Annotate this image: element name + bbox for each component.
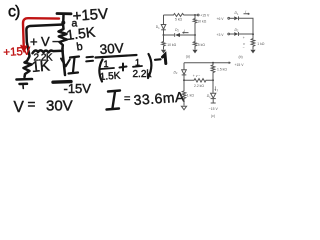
(b) diode D1 [234,16,238,20]
svg-text:I: I [217,89,218,93]
(b) output node [252,33,254,35]
svg-text:+15V: +15V [72,6,109,25]
formula open paren [99,60,102,82]
svg-text:10 kΩ: 10 kΩ [197,19,206,23]
(c) wire diode D1 to -15V [212,99,214,103]
wire resistor 1.5K to node b [61,49,64,53]
formula term 1/2.2k [133,58,153,81]
formula term 1/1.5K [99,59,121,83]
svg-text:+15V: +15V [3,46,31,59]
(a) resistor 10k left lower [162,35,165,50]
(a) wire left top [163,15,165,25]
(a) diode D1 [161,25,166,30]
svg-text:(a): (a) [186,55,190,59]
svg-text:=: = [124,93,130,105]
svg-text:c): c) [8,4,20,21]
(b) ground [250,50,255,54]
equals sign [86,57,93,62]
(b) +6V input terminal [228,17,234,19]
(c) resistor 1k [182,80,186,106]
(c) diode D1 [211,93,216,98]
wire node a to left branch top [26,25,63,57]
(a) node top right [194,14,196,16]
formula plus sign [120,64,127,71]
svg-text:−: − [52,34,60,49]
resistor 1K [24,57,32,77]
node a junction dot [61,21,65,25]
svg-text:1.5K: 1.5K [99,71,121,83]
-15V supply rail tick [53,80,71,84]
svg-text:I: I [184,29,185,33]
svg-text:(b): (b) [239,55,243,59]
(c) -15V rail tick [211,102,216,104]
svg-text:+3 V: +3 V [217,33,225,37]
(a) resistor 5k right lower [193,35,196,50]
(c) wire left top [183,63,185,70]
(c) node middle [212,79,214,81]
(c) current arrow I [215,86,216,90]
current arrowhead I [61,59,70,67]
svg-text:+: + [30,34,38,49]
svg-text:+: + [243,36,245,40]
svg-text:10 kΩ: 10 kΩ [167,43,176,47]
svg-text:(c): (c) [211,114,215,118]
svg-text:=: = [28,97,36,112]
svg-text:+ v −: + v − [193,74,201,78]
(a) ground left [161,50,166,54]
svg-text:30V: 30V [99,40,124,57]
formula fraction bar [96,55,137,58]
resistor 1.5K [59,26,67,49]
svg-text:D2: D2 [235,28,239,33]
(a) node right [194,34,196,36]
svg-text:2.2 kΩ: 2.2 kΩ [194,84,204,88]
current label I [69,57,80,74]
svg-text:V: V [41,34,50,49]
svg-text:D2: D2 [175,28,179,33]
svg-text:V: V [14,99,25,116]
svg-text:1.5 kΩ: 1.5 kΩ [217,67,227,71]
svg-text:D1: D1 [207,94,211,99]
svg-text:+6 V: +6 V [217,17,225,21]
svg-text:-15V: -15V [64,81,92,96]
wire node b down to -15V [63,52,65,75]
(c) wire node to diode D1 [212,80,214,93]
(a) wire middle right [180,34,195,36]
(c) node top [212,62,214,64]
(c) node left [183,79,185,81]
voltage label + V - [30,34,60,49]
svg-text:−15 V: −15 V [209,107,219,111]
result V = 30V [14,97,73,116]
svg-text:1 kΩ: 1 kΩ [187,93,195,97]
red wire +15V annotation [21,18,59,51]
(b) wire bottom to output node [239,33,253,35]
formula close paren [148,54,151,78]
svg-text:D1: D1 [235,11,239,16]
(c) diode D2 [182,70,187,75]
(a) +15V terminal [195,14,199,16]
wire tick to node a [62,15,65,22]
svg-text:1 kΩ: 1 kΩ [257,42,265,46]
(c) wire top rail with +15V arrow [184,62,231,64]
(b) diode D2 [234,32,238,36]
(c) resistor 1.5k [211,63,215,81]
formula exponent -1 [155,55,166,64]
(a) resistor 10k right upper [193,15,196,35]
+15V supply rail tick [57,12,71,15]
(a) wire diode D1 to node [163,30,165,35]
svg-text:D1: D1 [156,25,160,30]
svg-text:1: 1 [104,59,109,69]
part label c) [8,4,20,21]
result I = 33.6mA [107,88,186,109]
(a) wire middle left [164,34,175,36]
svg-text:30V: 30V [46,98,73,115]
(c) wire with resistor 2.2k [184,79,213,82]
svg-text:−: − [243,46,245,50]
svg-text:5 kΩ: 5 kΩ [175,18,183,22]
(b) wire top to output node [239,18,253,34]
svg-text:1K: 1K [31,57,51,76]
(a) diode D2 [175,33,180,37]
svg-text:I: I [245,10,246,14]
(c) ground [181,106,186,110]
(a) node left [163,34,165,36]
(b) current arrow I [244,13,250,14]
svg-text:5 kΩ: 5 kΩ [198,43,206,47]
resistor 2.2K [33,50,63,53]
svg-text:D2: D2 [174,71,178,76]
(b) +3V input terminal [228,33,234,35]
svg-text:v: v [243,42,245,46]
(a) current arrow I [183,32,189,33]
(b) resistor 1k [251,34,255,49]
svg-text:+15 V: +15 V [200,13,210,17]
(b) output label + v - [243,36,245,50]
ground [17,78,33,81]
(a) wire top rail with resistor 5k [164,14,196,17]
(c) wire diode D2 to node [183,75,185,80]
svg-text:+15 V: +15 V [235,63,245,67]
(a) ground right [192,50,197,54]
